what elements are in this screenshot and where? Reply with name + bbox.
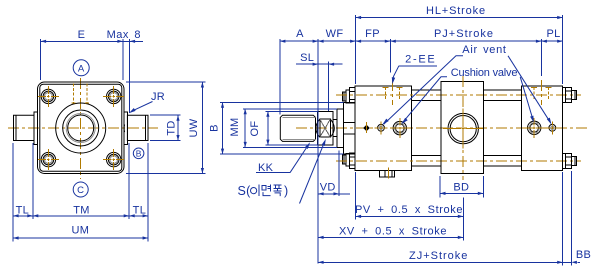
bottom port boss left head <box>380 170 395 177</box>
svg-text:Cushion valve: Cushion valve <box>451 67 518 79</box>
trunnion pin circle <box>448 113 478 143</box>
right tie rod nut top <box>563 88 566 103</box>
left tie rod nut bottom <box>342 155 346 164</box>
left view vertical centerline <box>80 78 82 179</box>
trunnion block <box>441 82 483 174</box>
dimension VD <box>338 151 340 197</box>
rod flats section outline <box>317 111 333 145</box>
dimension BB <box>570 171 572 265</box>
svg-text:FP: FP <box>365 28 380 40</box>
dimension TL right <box>147 143 149 242</box>
svg-text:OF: OF <box>249 121 261 137</box>
thread minor circle <box>68 115 94 141</box>
cylinder tube lower lines gap2 <box>483 155 521 157</box>
dimension MM <box>243 108 337 110</box>
svg-text:E: E <box>78 29 86 41</box>
circled label A <box>73 60 89 76</box>
cushion valve left <box>393 121 406 134</box>
circled label C <box>73 182 88 197</box>
flange outer outline <box>38 82 125 174</box>
rod neck <box>333 119 337 121</box>
dimension B <box>220 101 344 103</box>
dimension PV <box>355 172 357 219</box>
left view horizontal centerline <box>8 127 158 129</box>
tie rod centerline top <box>336 94 581 96</box>
cushion valve right <box>528 121 541 134</box>
air vent right <box>549 124 556 131</box>
left head block <box>355 86 412 170</box>
leader S width across flats with korean <box>300 142 325 203</box>
rod thread end KK <box>280 115 315 141</box>
svg-text:2-EE: 2-EE <box>405 53 436 65</box>
svg-text:A: A <box>78 63 85 74</box>
dimension Max 8 <box>129 39 131 113</box>
svg-text:WF: WF <box>326 28 344 40</box>
bolt hole at (48,96) <box>41 89 55 103</box>
dimension ZJ+Stroke <box>562 172 564 265</box>
center boss circle <box>56 103 106 153</box>
gland boss <box>336 109 338 148</box>
left pin collar <box>34 112 37 144</box>
svg-text:BD: BD <box>453 181 469 193</box>
svg-text:JR: JR <box>151 91 165 103</box>
dimension TM <box>128 143 130 219</box>
cylinder tube lower lines gap1 <box>412 155 441 157</box>
hidden port hole lines top of flange <box>72 84 74 104</box>
svg-text:): ) <box>284 184 288 198</box>
dimension HL+Stroke <box>356 17 563 19</box>
gland seal housing lines <box>344 122 356 124</box>
circled label B <box>133 148 144 159</box>
svg-text:TM: TM <box>73 205 89 217</box>
gland flange <box>343 102 345 154</box>
svg-text:A: A <box>296 28 304 40</box>
cylinder tube upper lines gap2 <box>483 89 521 91</box>
right pin collar JR <box>124 112 127 144</box>
svg-text:UM: UM <box>72 225 90 237</box>
right head block <box>522 86 563 170</box>
bore circle <box>63 110 99 146</box>
svg-text:S(: S( <box>238 184 252 198</box>
svg-text:XV + 0.5 x Stroke: XV + 0.5 x Stroke <box>339 225 447 237</box>
svg-text:Air vent: Air vent <box>462 44 506 56</box>
right tie rod nut bottom <box>563 153 566 168</box>
dimension chain A WF FP PJ PL <box>279 39 281 115</box>
dimension BD <box>439 176 441 198</box>
dimension UM <box>13 237 148 239</box>
dimension UW <box>126 81 206 83</box>
left trunnion pin <box>14 115 35 140</box>
svg-text:TL: TL <box>16 205 29 217</box>
svg-text:VD: VD <box>320 181 336 193</box>
svg-text:HL+Stroke: HL+Stroke <box>426 5 486 17</box>
thread circle gray <box>66 114 95 143</box>
dimension TL left <box>12 143 14 242</box>
svg-text:MM: MM <box>229 118 241 137</box>
bolt hole at (113,96) <box>107 89 121 103</box>
svg-text:UW: UW <box>188 118 200 137</box>
svg-text:TL: TL <box>133 205 146 217</box>
dimension E <box>40 39 42 80</box>
tie rod centerline bottom <box>336 160 581 162</box>
svg-text:PL: PL <box>546 28 560 40</box>
dimension SL <box>328 62 330 112</box>
flange inner outline <box>40 84 122 171</box>
svg-text:BB: BB <box>576 249 591 261</box>
svg-text:SL: SL <box>300 52 314 64</box>
svg-text:PV + 0.5 x Stroke: PV + 0.5 x Stroke <box>355 204 463 216</box>
left tie rod nut top <box>342 92 346 101</box>
svg-text:TD: TD <box>166 120 178 135</box>
side view main centerline <box>296 127 590 129</box>
svg-text:Max 8: Max 8 <box>107 29 141 41</box>
dimension TD <box>150 114 181 116</box>
svg-text:ZJ+Stroke: ZJ+Stroke <box>409 250 468 262</box>
wrench flats box <box>320 119 331 137</box>
plug dot left head <box>364 125 369 130</box>
EE port hidden lines left head <box>384 87 386 100</box>
dimension XV <box>318 236 463 238</box>
svg-text:B: B <box>136 148 142 158</box>
EE port hidden lines right head <box>533 87 535 100</box>
trunnion centerlines <box>462 76 464 180</box>
air vent left <box>378 124 385 131</box>
dimension OF <box>266 110 318 112</box>
thread inner lines <box>283 116 316 118</box>
bolt hole at (48,159) <box>41 152 55 166</box>
svg-text:C: C <box>77 185 84 196</box>
svg-text:B: B <box>209 124 221 132</box>
bolt hole at (113,159) <box>107 152 121 166</box>
right trunnion pin <box>127 115 148 140</box>
cylinder tube upper lines gap1 <box>412 89 441 91</box>
svg-text:PJ+Stroke: PJ+Stroke <box>434 28 494 40</box>
